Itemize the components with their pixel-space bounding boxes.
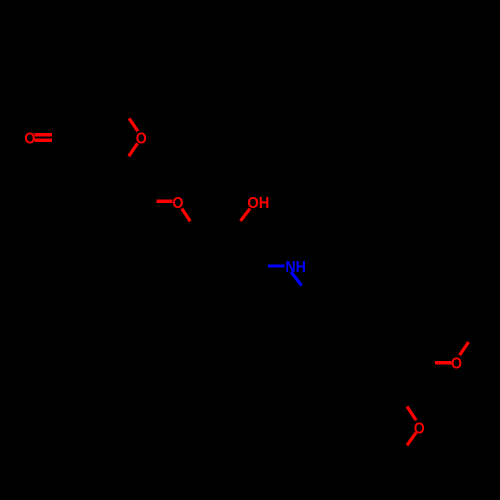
carbonyl O1 (ketone oxygen label) [24, 130, 35, 147]
wire O5 lower-left half-bond [407, 433, 416, 446]
hydroxyl OH label [247, 195, 269, 212]
ether oxygen O3 label [172, 195, 183, 212]
wire NH left half-bond [268, 265, 284, 268]
methoxy oxygen O5 label [414, 421, 425, 438]
wire C=O double bond upper half-line [34, 133, 51, 136]
wire O3 left half-bond [157, 200, 173, 203]
wire OH lower-left half-bond [241, 209, 251, 222]
amine NH label [285, 259, 306, 276]
wire NH lower-right half-bond [291, 272, 302, 286]
wire O2 upper-left half-bond [129, 118, 138, 131]
svg-text:NH: NH [285, 259, 306, 276]
wire O5 upper-left half-bond [407, 407, 416, 421]
wire O3 lower-right half-bond [182, 209, 190, 222]
ring oxygen O2 label [136, 130, 147, 147]
wire O2 lower-left half-bond [129, 143, 138, 156]
wire O4 left half-bond [435, 361, 452, 364]
wire O4 upper-right half-bond [460, 342, 469, 355]
svg-text:O: O [24, 130, 35, 147]
wire C=O double bond lower half-line [34, 139, 51, 142]
methoxy oxygen O4 label [451, 356, 462, 373]
svg-text:O: O [451, 356, 462, 373]
